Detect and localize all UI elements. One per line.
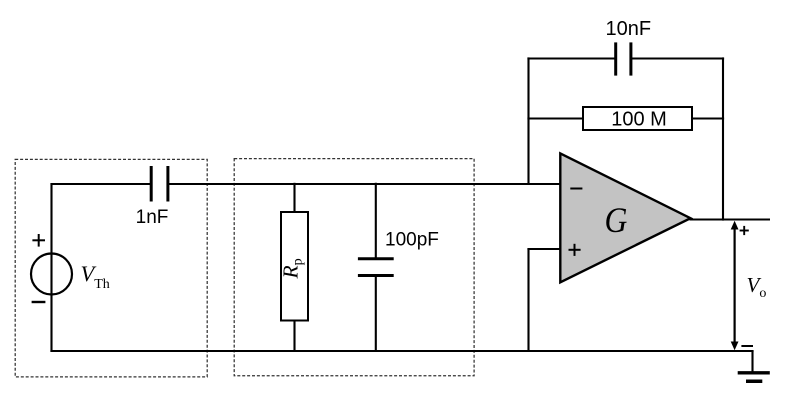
arrow V_o [731,221,739,350]
source V_Th circle [31,254,72,295]
svg-text:100 M: 100 M [611,109,667,131]
dashed box parallel network [234,159,474,376]
ground stub [751,351,753,373]
resistor R_p body [281,212,308,321]
output minus sign [741,345,753,347]
svg-text:G: G [604,201,627,240]
svg-text:Vo: Vo [747,273,767,301]
wire 100M feedback right [692,117,724,119]
source plus sign [32,234,45,247]
op-amp plus sign [569,244,581,256]
wire R_p branch bottom [293,321,295,353]
wire plus input horizontal [527,248,560,250]
source minus sign [32,301,46,303]
wire feedback right vertical [722,57,724,220]
wire R_p branch top [293,183,295,213]
output plus sign [740,226,749,235]
wire output [690,218,771,220]
ground bar 2 [746,379,762,383]
svg-text:VTh: VTh [81,261,110,292]
wire 100pF branch bottom [375,276,377,353]
wire bottom rail [50,350,753,352]
wire feedback left vertical [527,57,529,184]
ground bar 1 [738,371,770,374]
wire top rail right segment [169,183,561,185]
wire 100pF branch top [375,183,377,259]
wire top rail left segment [50,183,150,185]
wire plus input vertical to ground rail [527,249,529,352]
op-amp minus sign [570,188,582,190]
svg-text:100pF: 100pF [385,230,439,251]
resistor 100M body [583,107,692,130]
capacitor C 1nF plates [151,166,168,202]
wire 10nF feedback top left [527,57,615,59]
op-amp G triangle [560,153,690,282]
wire 10nF feedback top right [631,57,724,59]
capacitor 100pF plates [358,259,394,276]
svg-text:1nF: 1nF [136,207,169,228]
svg-text:10nF: 10nF [606,18,652,40]
wire 100M feedback left [527,117,583,119]
dashed box source network [15,159,207,377]
wire source vertical [50,183,52,352]
capacitor 10nF plates [616,42,631,75]
